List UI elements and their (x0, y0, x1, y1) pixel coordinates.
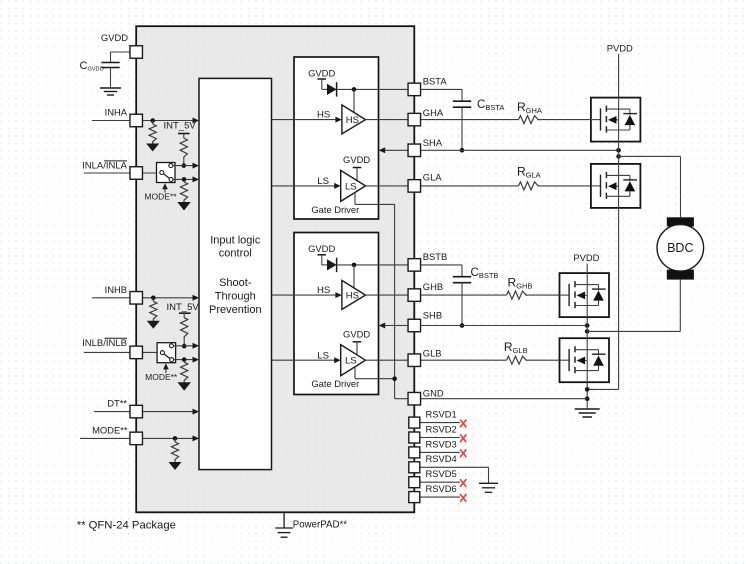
svg-text:BSTB: BSTB (423, 251, 448, 262)
svg-text:GLA: GLA (423, 171, 443, 182)
svg-text:GVDD: GVDD (308, 243, 335, 254)
svg-text:INHA: INHA (105, 107, 128, 118)
svg-text:** QFN-24 Package: ** QFN-24 Package (77, 519, 176, 531)
svg-text:Through: Through (215, 291, 256, 303)
svg-text:MODE**: MODE** (92, 425, 128, 436)
svg-text:RSVD3: RSVD3 (426, 438, 457, 449)
svg-text:GVDD: GVDD (101, 32, 128, 43)
svg-text:RSVD5: RSVD5 (426, 468, 457, 479)
svg-text:HS: HS (346, 115, 359, 126)
svg-text:control: control (219, 248, 252, 260)
svg-text:LS: LS (317, 350, 329, 361)
svg-text:INLB/INLB: INLB/INLB (82, 338, 127, 349)
svg-text:BDC: BDC (667, 241, 693, 255)
svg-text:SHA: SHA (423, 137, 443, 148)
svg-text:INLA/INLA: INLA/INLA (82, 161, 128, 172)
svg-text:HS: HS (317, 110, 330, 121)
svg-text:PVDD: PVDD (573, 252, 599, 263)
svg-text:GHA: GHA (423, 107, 444, 118)
svg-text:HS: HS (346, 290, 359, 301)
svg-text:Shoot-: Shoot- (219, 277, 252, 289)
svg-text:RSVD1: RSVD1 (426, 409, 457, 420)
svg-text:GVDD: GVDD (343, 154, 370, 165)
svg-text:GND: GND (423, 387, 444, 398)
svg-text:MODE**: MODE** (145, 372, 178, 382)
svg-text:GHB: GHB (423, 281, 443, 292)
svg-text:DT**: DT** (107, 397, 127, 408)
svg-text:PowerPAD**: PowerPAD** (293, 519, 347, 530)
svg-text:Gate Driver: Gate Driver (311, 378, 359, 389)
svg-text:LS: LS (345, 181, 357, 192)
svg-text:GVDD: GVDD (343, 329, 370, 340)
svg-text:BSTA: BSTA (423, 75, 448, 86)
svg-text:SHB: SHB (423, 310, 442, 321)
svg-text:INT_5V: INT_5V (167, 302, 200, 313)
svg-text:INHB: INHB (105, 284, 127, 295)
svg-text:HS: HS (317, 285, 330, 296)
svg-text:RSVD6: RSVD6 (426, 483, 457, 494)
svg-text:INT_5V: INT_5V (164, 121, 197, 132)
svg-text:GLB: GLB (423, 347, 442, 358)
svg-text:LS: LS (345, 356, 357, 367)
svg-text:PVDD: PVDD (607, 42, 633, 53)
svg-text:GVDD: GVDD (308, 67, 335, 78)
svg-text:RSVD2: RSVD2 (426, 423, 457, 434)
svg-text:MODE**: MODE** (144, 192, 177, 202)
svg-text:RSVD4: RSVD4 (426, 453, 457, 464)
svg-text:Prevention: Prevention (209, 304, 262, 316)
svg-text:Gate Driver: Gate Driver (311, 204, 359, 215)
svg-text:Input logic: Input logic (210, 234, 261, 246)
